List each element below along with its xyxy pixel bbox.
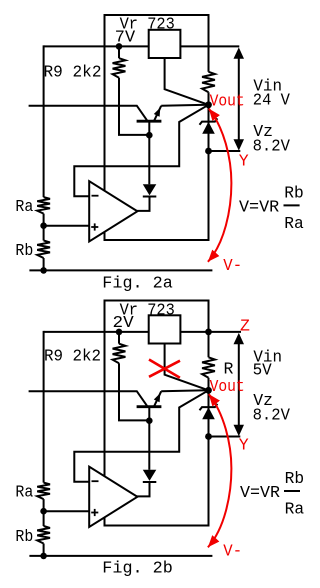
wire Q1 emitter to Vout node <box>161 390 207 391</box>
svg-text:Rb: Rb <box>15 527 33 546</box>
723 package outline right edge upper segment / wire to resistor <box>208 300 210 358</box>
svg-text:R9 2k2: R9 2k2 <box>44 63 102 82</box>
svg-text:R9 2k2: R9 2k2 <box>44 346 101 365</box>
op-amp U2 non-inverting input marker <box>91 512 98 514</box>
svg-text:Rb: Rb <box>15 241 33 260</box>
transistor Q1 base lead <box>148 407 150 421</box>
svg-text:24 V: 24 V <box>253 90 290 109</box>
svg-text:5V: 5V <box>253 360 272 379</box>
wire divider node to non-inverting input <box>44 510 90 512</box>
svg-text:Ra: Ra <box>285 500 305 519</box>
diode D1 cathode bar <box>143 196 157 198</box>
wire diode D1 to op-amp output <box>137 482 150 496</box>
svg-text:Vout: Vout <box>210 377 245 396</box>
wire Rb to ground rail <box>43 258 45 270</box>
transistor Q1 emitter lead <box>154 391 161 406</box>
transistor Q1 base bar <box>137 405 162 408</box>
723 package outline top edge <box>105 300 209 302</box>
723 package outline left edge <box>104 300 106 527</box>
wire Q1 base to diode D1 <box>148 135 150 184</box>
wire R9 to transistor base (L bend) <box>119 363 149 420</box>
resistor R9 2k2 <box>113 58 126 77</box>
svg-text:7V: 7V <box>115 27 135 46</box>
node Q1 base junction <box>146 132 153 139</box>
wire Y node stub <box>209 150 241 152</box>
svg-text:Rb: Rb <box>285 469 305 488</box>
Vin span dimension arrow down <box>234 139 245 150</box>
wire left rail down from supply corner <box>43 331 45 483</box>
diode D1 cathode bar <box>143 481 157 483</box>
wire Rb to ground rail <box>43 544 45 556</box>
723 package outline bottom edge <box>104 239 210 241</box>
wire Q1 base to diode D1 <box>148 421 150 470</box>
wire top supply rail <box>44 331 241 333</box>
transistor Q1 emitter arrow <box>154 108 161 117</box>
node R9 top junction on rail <box>116 43 123 50</box>
red adjustment range curve Vout to V- <box>208 394 232 547</box>
transistor Q1 collector lead <box>29 391 147 406</box>
svg-text:Ra: Ra <box>284 214 304 233</box>
wire R9 to transistor base (L bend) <box>119 78 149 135</box>
red X removed-connection mark <box>149 360 180 378</box>
svg-text:Vout: Vout <box>210 92 245 111</box>
resistor Ra <box>37 197 50 214</box>
svg-text:Rb: Rb <box>284 183 304 202</box>
zener diode Vz cathode bar <box>200 404 218 410</box>
svg-text:8.2V: 8.2V <box>253 406 290 425</box>
svg-text:Y: Y <box>239 436 249 455</box>
wire 7V node to R9 <box>118 46 120 58</box>
wire top supply rail <box>44 45 240 47</box>
Vin span dimension arrow up <box>234 47 245 58</box>
Vin span dimension arrow up <box>234 333 245 344</box>
transistor Q1 emitter lead <box>154 106 161 121</box>
zener diode Vz triangle <box>202 122 215 134</box>
resistor R (right edge, current sense) <box>202 72 215 92</box>
op-amp U2 inverting input marker <box>92 480 99 482</box>
node Q1 base junction <box>146 417 153 424</box>
node zener anode junction Y <box>205 433 212 440</box>
op-amp U2 error amplifier triangle <box>89 467 137 527</box>
wire 723 output lead <box>165 58 209 105</box>
svg-text:Ra: Ra <box>15 482 33 501</box>
wire 7V node to R9 <box>118 332 120 344</box>
node rail junction at Z (fig 2b) <box>205 329 212 336</box>
zener diode Vz triangle <box>202 407 215 419</box>
wire Q1 emitter to Vout node <box>161 105 207 106</box>
723 package outline right edge upper segment / wire to resistor <box>208 14 210 72</box>
node Vout junction <box>205 101 212 108</box>
723 package outline top edge <box>105 14 209 16</box>
diode D1 triangle <box>143 470 157 481</box>
node Vout junction <box>205 387 212 394</box>
wire feedback Vout to error amp inverting input <box>74 390 208 481</box>
svg-text:Fig. 2b: Fig. 2b <box>102 558 173 577</box>
723 package outline left edge <box>104 14 106 241</box>
diode D1 triangle <box>143 184 157 195</box>
red adjustment range curve Vout to V- <box>208 109 232 262</box>
resistor Ra <box>37 483 50 500</box>
svg-text:Ra: Ra <box>15 197 33 216</box>
wire left rail down from supply corner <box>43 45 45 197</box>
transistor Q1 collector lead <box>29 106 147 121</box>
wire 723 output lead <box>165 344 209 391</box>
wire Y node stub <box>209 436 241 438</box>
svg-text:2V: 2V <box>113 313 134 332</box>
wire diode D1 to op-amp output <box>137 197 150 211</box>
svg-text:Z: Z <box>240 316 250 335</box>
op-amp U1 723 regulator box <box>149 315 181 343</box>
wire divider node to non-inverting input <box>44 225 90 227</box>
resistor Rb <box>37 241 50 259</box>
transistor Q1 base bar <box>137 120 162 123</box>
svg-text:Y: Y <box>239 152 249 171</box>
wire Ra to divider node <box>43 214 45 241</box>
node zener anode junction Y <box>205 148 212 155</box>
Vin span dimension line <box>238 56 240 140</box>
723 package outline right edge lower segment / Vout-zener wire <box>208 378 210 526</box>
wire feedback Vout to error amp inverting input <box>74 105 208 196</box>
resistor Rb <box>37 526 50 544</box>
723 package outline right edge lower segment / Vout-zener wire <box>208 92 210 240</box>
zener diode Vz cathode bar <box>200 118 218 124</box>
node divider junction (Ra/Rb) <box>40 222 47 229</box>
svg-text:8.2V: 8.2V <box>253 137 290 156</box>
node R9 top junction on rail <box>116 329 123 336</box>
Vin span dimension arrow down <box>234 425 245 436</box>
op-amp U1 723 regulator box <box>149 30 181 58</box>
svg-text:V-: V- <box>223 256 242 275</box>
op-amp U2 non-inverting input marker <box>91 226 98 228</box>
node divider junction (Ra/Rb) <box>40 508 47 515</box>
wire ground rail V- <box>29 555 212 557</box>
resistor R (right edge, current sense) <box>202 357 215 377</box>
svg-text:V=VR: V=VR <box>240 483 280 502</box>
node ground rail junction at Rb <box>40 267 47 274</box>
transistor Q1 emitter arrow <box>154 393 161 402</box>
svg-text:V-: V- <box>223 541 242 560</box>
svg-text:Fig. 2a: Fig. 2a <box>102 274 173 293</box>
transistor Q1 base lead <box>148 121 150 135</box>
wire ground rail V- <box>29 269 212 271</box>
wire Ra to divider node <box>43 499 45 526</box>
node ground rail junction at Rb <box>40 553 47 560</box>
resistor R9 2k2 <box>113 344 126 364</box>
svg-text:R: R <box>224 360 234 379</box>
op-amp U2 inverting input marker <box>92 195 99 197</box>
svg-text:V=VR: V=VR <box>239 197 279 216</box>
Vin span dimension line <box>238 342 240 426</box>
op-amp U2 error amplifier triangle <box>89 181 137 241</box>
723 package outline bottom edge <box>104 525 210 527</box>
